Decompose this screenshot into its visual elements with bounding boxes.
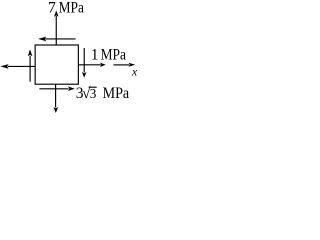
arrow sigma-y top (up) — [54, 10, 59, 45]
shear arrow left edge (up) — [28, 49, 33, 81]
svg-text:x: x — [131, 65, 138, 79]
arrow sigma-x right (right) — [78, 63, 105, 67]
svg-text:MPa: MPa — [103, 85, 130, 102]
svg-text:3: 3 — [90, 86, 97, 101]
arrow sigma-y bottom (down) — [53, 84, 58, 113]
shear arrow right edge (down) — [82, 48, 87, 78]
arrow sigma-x left (left) — [0, 64, 35, 69]
svg-text:1: 1 — [91, 47, 99, 64]
svg-text:MPa: MPa — [59, 0, 84, 16]
stress element square — [35, 45, 78, 84]
x axis arrow — [113, 63, 135, 67]
svg-text:MPa: MPa — [101, 47, 126, 64]
svg-text:7: 7 — [48, 0, 56, 16]
shear arrow bottom (right) — [39, 86, 74, 91]
shear arrow top (left) — [38, 37, 76, 42]
